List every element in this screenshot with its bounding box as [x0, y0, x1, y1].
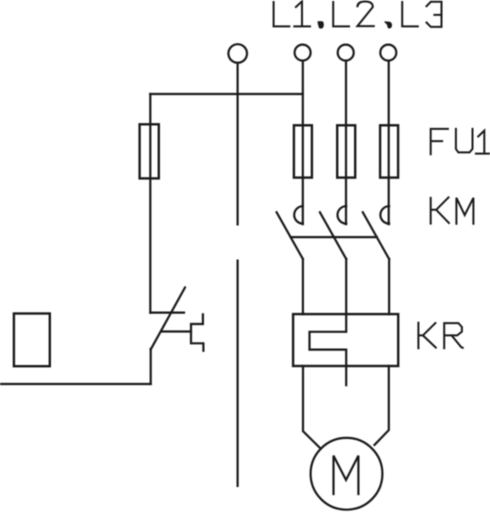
fuse control branch: [140, 124, 159, 178]
thermal relay KR box: [293, 314, 398, 366]
contactor KM contact 2: [320, 206, 346, 259]
wire middle vertical lower segment: [237, 261, 239, 486]
label KR: [418, 323, 462, 348]
motor M circle: [311, 438, 383, 510]
wire KR to motor right: [375, 366, 389, 445]
wire KM contact 3 to KR: [388, 259, 390, 314]
terminal circle control phase: [228, 44, 247, 63]
KR trip actuator: [191, 314, 203, 351]
label M inside motor: [334, 456, 359, 494]
fuse FU1 pole 2: [337, 125, 355, 177]
label L1,L2,L3: [274, 1, 442, 28]
fuse FU1 pole 3: [380, 125, 398, 177]
contactor KM contact 1: [277, 206, 303, 259]
wire KR to motor left: [303, 366, 320, 448]
wire L2 terminal through fuse to KM contact 2: [345, 61, 347, 225]
fuse FU1 pole 1: [294, 125, 312, 177]
label FU1: [431, 129, 490, 154]
wire bottom left horizontal: [0, 383, 151, 385]
KR trip connector: [161, 330, 191, 332]
wire middle vertical upper segment: [237, 63, 239, 225]
KM mechanical linkage bar: [291, 236, 377, 238]
KR NC contact fixed bar: [150, 312, 184, 314]
KR heater element phase 2: [310, 259, 347, 385]
terminal circle L1: [295, 45, 311, 61]
wire NC contact to bottom: [150, 349, 152, 384]
terminal circle L2: [338, 45, 354, 61]
wire L1 terminal through fuse to KM contact 1: [302, 61, 304, 225]
wire top bus: [150, 93, 302, 95]
contactor KM contact 3: [363, 206, 389, 259]
label KM: [431, 197, 474, 223]
KR NC contact blade: [151, 288, 185, 350]
coil box KM (control): [14, 314, 50, 367]
wire control branch through fuse down to KR contact: [149, 94, 151, 313]
wire KM contact 1 to KR: [302, 259, 304, 314]
terminal circle L3: [380, 45, 396, 61]
wire L3 terminal through fuse to KM contact 3: [388, 61, 390, 225]
